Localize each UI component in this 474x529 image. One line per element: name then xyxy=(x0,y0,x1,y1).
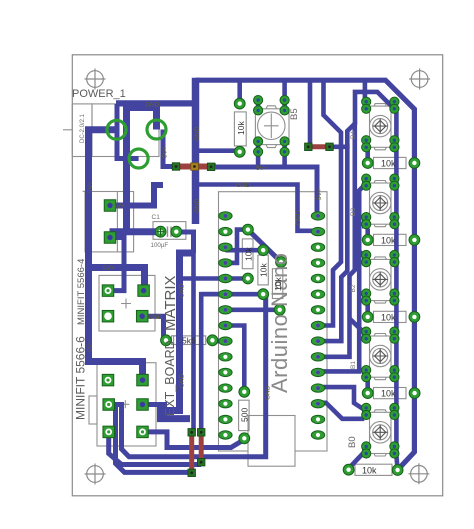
wire 500 bottom pad into h1 xyxy=(242,438,247,440)
svg-text:C1: C1 xyxy=(152,214,161,221)
button B5 pads xyxy=(254,96,290,157)
svg-text:GND: GND xyxy=(265,385,272,400)
red jumper via pads near DC jack xyxy=(172,163,180,171)
10k B5-resistor top pad xyxy=(234,98,245,109)
wire DC pad1 down to pad3 xyxy=(117,104,139,159)
svg-text:GND: GND xyxy=(148,314,163,321)
svg-text:5V+: 5V+ xyxy=(316,188,323,200)
wire B4 pad stubs xyxy=(365,80,368,163)
button B3 outline xyxy=(370,181,392,227)
wire 560 right pad to pad9L xyxy=(212,339,225,344)
wire 5V power: DC jack pad1 to left bar down to 5566-6 top-right pad xyxy=(89,130,143,381)
button B2 outline xyxy=(370,257,392,303)
svg-text:GND: GND xyxy=(179,373,186,388)
10k R3 pads xyxy=(258,245,269,256)
red traces layer xyxy=(172,147,331,473)
wire rail1 from top rail to arduino right pad8 xyxy=(318,80,341,325)
resistor 560 body xyxy=(174,336,206,345)
10k R6 pads xyxy=(362,235,373,246)
wire B3 pad stubs and 10k2 link xyxy=(364,176,367,239)
arduino nano body outline xyxy=(219,192,328,451)
EXT_BOARD pad / 560 left pad xyxy=(161,335,172,346)
wire arduino left pad6 to x201 vertical down to via xyxy=(201,294,225,432)
wire rail2 down to arduino right pad9 xyxy=(318,145,347,342)
wire B2 pad stubs and 10k3 link xyxy=(355,247,368,317)
wire diagonal 10k2 top to 10k4 top xyxy=(246,228,282,263)
MATRIX pad top-right xyxy=(138,285,150,297)
svg-text:100µF: 100µF xyxy=(151,242,169,249)
500 top pad xyxy=(239,386,250,397)
text layer xyxy=(72,88,396,476)
svg-text:MINIFIT 5566-4: MINIFIT 5566-4 xyxy=(76,259,87,325)
MATRIX connector outline xyxy=(99,275,155,331)
wire GND mid horizontal to arduino right pad2 xyxy=(196,185,319,231)
resistor 10k R8 body xyxy=(374,388,407,399)
wire bottom h4: to via near USB xyxy=(116,406,192,472)
red jumper via pads right of B5 xyxy=(305,143,313,151)
minifit 5566-6 pad mid-right xyxy=(137,399,149,411)
resistor 10k R6 body xyxy=(374,234,407,245)
svg-text:5V+: 5V+ xyxy=(256,165,268,172)
svg-text:B5: B5 xyxy=(289,108,300,120)
svg-text:10k: 10k xyxy=(381,313,396,323)
svg-text:5V+: 5V+ xyxy=(162,146,169,158)
svg-text:POWER_1: POWER_1 xyxy=(72,88,126,100)
MATRIX pad bottom-right xyxy=(136,310,148,322)
wire bottom h2: 5566-6 ML pad down right and thick vertical up beside USB xyxy=(109,296,266,457)
svg-text:MINIFIT 5566-6: MINIFIT 5566-6 xyxy=(74,336,88,420)
wire DC pad2 inverted-U to C1 left pad xyxy=(127,108,157,232)
resistor 500 body xyxy=(239,400,250,430)
wire C1 right pad to GND junction xyxy=(176,232,193,253)
red jumper vertical left under USB xyxy=(189,432,194,473)
DC jack pad 1 xyxy=(107,120,126,139)
minifit 5566-6 pad mid-left xyxy=(103,399,115,411)
mounting hole bottom-left xyxy=(85,464,106,485)
svg-text:B2: B2 xyxy=(350,284,357,292)
minifit 5566-6 pad top-right xyxy=(137,374,149,386)
DC jack POWER_1 outline xyxy=(63,104,159,157)
10k R9 pads xyxy=(343,464,354,475)
mounting hole top-right xyxy=(409,69,430,90)
capacitor C1 body xyxy=(153,222,186,240)
mounting holes xyxy=(85,69,431,485)
10k B5-resistor bottom pad xyxy=(234,146,245,157)
500 bottom pad xyxy=(239,433,250,444)
red jumper vertical right under USB xyxy=(199,432,204,462)
wire B0 pad stubs and 10k5 link xyxy=(349,409,365,468)
svg-text:10k: 10k xyxy=(381,236,396,246)
svg-text:10k: 10k xyxy=(273,277,283,291)
10k R7 pads xyxy=(362,312,373,323)
resistor 10k R4 body xyxy=(272,269,282,299)
MATRIX pad top-left xyxy=(102,285,114,297)
svg-text:GND: GND xyxy=(179,283,186,298)
svg-text:5V+: 5V+ xyxy=(113,203,125,210)
svg-text:GND: GND xyxy=(194,126,201,141)
svg-text:10k: 10k xyxy=(236,121,246,135)
wire after red jumper to buttons: right then up-jog to button right rail xyxy=(330,145,347,150)
minifit 5566-4 connector outline xyxy=(83,187,134,252)
wire 10k4 bottom to pad7L xyxy=(225,307,279,312)
mounting hole bottom-right xyxy=(408,463,429,484)
resistor 10k R2 body xyxy=(242,239,253,269)
wire 10k2 top route to pad3L xyxy=(225,230,248,263)
resistor 10k R9 body xyxy=(355,464,392,475)
wire minifit4 lower pad to MATRIX top-left pad xyxy=(109,238,125,291)
svg-text:B4: B4 xyxy=(350,131,357,139)
svg-text:5V+: 5V+ xyxy=(87,181,94,193)
button B3 pads xyxy=(362,174,399,229)
wire bottom h1: 5566-6 BR pad to 500 bottom pad xyxy=(143,432,245,448)
wire GND vertical x195.5 xyxy=(192,78,200,224)
arduino left pad column xyxy=(219,212,232,439)
10k R5 pads xyxy=(362,158,373,169)
wire GND x193.5 down to via xyxy=(192,253,194,432)
minifit 5566-4 pad 1 xyxy=(104,200,116,212)
wire arduino right pad13 diagonal to B0 top-left low pad xyxy=(318,403,364,419)
resistor 10k R5 body xyxy=(374,157,407,168)
EXT_BOARD pad label box xyxy=(172,336,178,345)
svg-text:500: 500 xyxy=(240,408,250,422)
wire arduino pad8L to 500 top pad xyxy=(225,326,244,392)
pads layer xyxy=(102,96,420,477)
via pads under USB xyxy=(188,429,196,437)
button B5 outline xyxy=(255,106,289,148)
blue traces layer xyxy=(89,78,415,473)
button B0 outline xyxy=(370,410,392,456)
560 right pad xyxy=(207,335,218,346)
wire B5 pad pair joins and stubs down to 5V line xyxy=(258,100,285,169)
svg-text:10k: 10k xyxy=(381,159,396,169)
svg-text:Arduino Nano: Arduino Nano xyxy=(267,252,292,393)
mounting hole top-left xyxy=(85,69,106,90)
wire B5 10k top stub to top rail xyxy=(237,80,242,103)
button B0 pads xyxy=(362,403,399,458)
svg-text:B1: B1 xyxy=(350,361,357,369)
svg-text:EXT_BOARD: EXT_BOARD xyxy=(163,340,177,416)
wire GND top horizontal y106.4 xyxy=(116,100,196,106)
wire 5V+ horizontal y167 to arduino right pad1 xyxy=(210,167,317,216)
button B4 outline xyxy=(370,104,392,150)
wire 5566-6 mid-right pad into GND bottom elbow xyxy=(143,405,165,419)
minifit 5566-6 pad top-left xyxy=(102,374,114,386)
minifit 5566-4 pad 2 xyxy=(104,232,116,244)
resistor 10k R7 body xyxy=(374,311,407,322)
wire minifit4 upper pad to DC pad2 xyxy=(110,185,163,206)
svg-text:DC-2.0/2.1: DC-2.0/2.1 xyxy=(80,113,86,143)
wire rail3 to arduino right pad10 xyxy=(318,122,355,357)
minifit 5566-6 connector outline xyxy=(89,363,156,446)
resistor 10k (B5) body xyxy=(234,112,246,146)
DC jack pad 3 xyxy=(129,149,148,168)
minifit 5566-6 pad bottom-left xyxy=(103,426,115,438)
svg-text:GND: GND xyxy=(236,182,251,189)
connected pad centers xyxy=(223,214,320,406)
svg-text:5V+: 5V+ xyxy=(87,340,94,352)
wire B5 TR stub to top rail xyxy=(282,80,287,100)
svg-text:GND: GND xyxy=(295,210,302,225)
wire rail4 from B3 top-left pad to arduino right pad11 xyxy=(318,185,364,371)
DC jack pad 2 xyxy=(147,120,166,139)
wire B1 pad stubs and 10k4 link xyxy=(350,319,368,393)
wire 10k3 top to pad4L xyxy=(225,248,263,253)
wire arduino right pad12 to B0 top-left high pad xyxy=(318,387,364,410)
wire top rail y84.3 with diagonal into right resistor rail x414.4 xyxy=(196,80,415,469)
svg-text:10k: 10k xyxy=(362,466,377,476)
svg-text:MATRIX: MATRIX xyxy=(162,275,179,331)
button B1 pads xyxy=(362,327,399,382)
svg-text:5k6: 5k6 xyxy=(182,336,196,346)
minifit 5566-6 pad bottom-right xyxy=(137,426,149,438)
wire thick GND vertical x179.5 with bottom elbow xyxy=(161,253,194,419)
svg-text:GND: GND xyxy=(145,101,160,108)
wire branch from top rail down to red jumper via xyxy=(308,80,313,147)
resistor 10k R3 body xyxy=(258,255,268,285)
component outlines layer xyxy=(63,104,406,476)
button B1 outline xyxy=(370,334,392,380)
svg-text:10k: 10k xyxy=(259,263,269,277)
svg-text:10k: 10k xyxy=(381,389,396,399)
svg-text:B0: B0 xyxy=(347,436,358,448)
wire 10k3 bottom to pad6L xyxy=(201,292,263,297)
USB connector outline xyxy=(248,416,295,467)
10k R4 pads xyxy=(276,257,287,268)
wire GND to B5 10k bottom pad xyxy=(196,148,240,153)
button B4 pads xyxy=(362,97,399,152)
board outline xyxy=(72,55,442,496)
wire DC pad2 stub down to red jumper xyxy=(163,130,173,167)
button B2 pads xyxy=(362,250,399,305)
wire branch left bar to MATRIX top-right pad xyxy=(89,268,145,292)
red jumper wire right of B5 xyxy=(307,144,331,149)
svg-text:B3: B3 xyxy=(350,208,357,216)
wire GND row pad5L from thick vertical to 10k2 bottom xyxy=(180,276,248,281)
wire bottom h3: 5566-6 BL pad down right to via xyxy=(109,432,202,465)
wire MATRIX bottom-right pad to 560 left pad xyxy=(142,316,166,340)
arduino right pad column xyxy=(311,212,324,439)
red jumper wire near DC jack xyxy=(172,164,216,170)
wire C1 left to minifit4 lower pad xyxy=(113,232,161,238)
svg-text:10k: 10k xyxy=(244,247,254,261)
capacitor C1 pad - xyxy=(171,226,182,237)
svg-text:5V+: 5V+ xyxy=(103,265,115,272)
capacitor C1 pad + xyxy=(155,226,166,237)
svg-text:GND: GND xyxy=(194,198,201,213)
10k R8 pads xyxy=(362,388,373,399)
MATRIX pad bottom-left xyxy=(102,310,114,322)
10k R2 pads xyxy=(243,224,254,235)
